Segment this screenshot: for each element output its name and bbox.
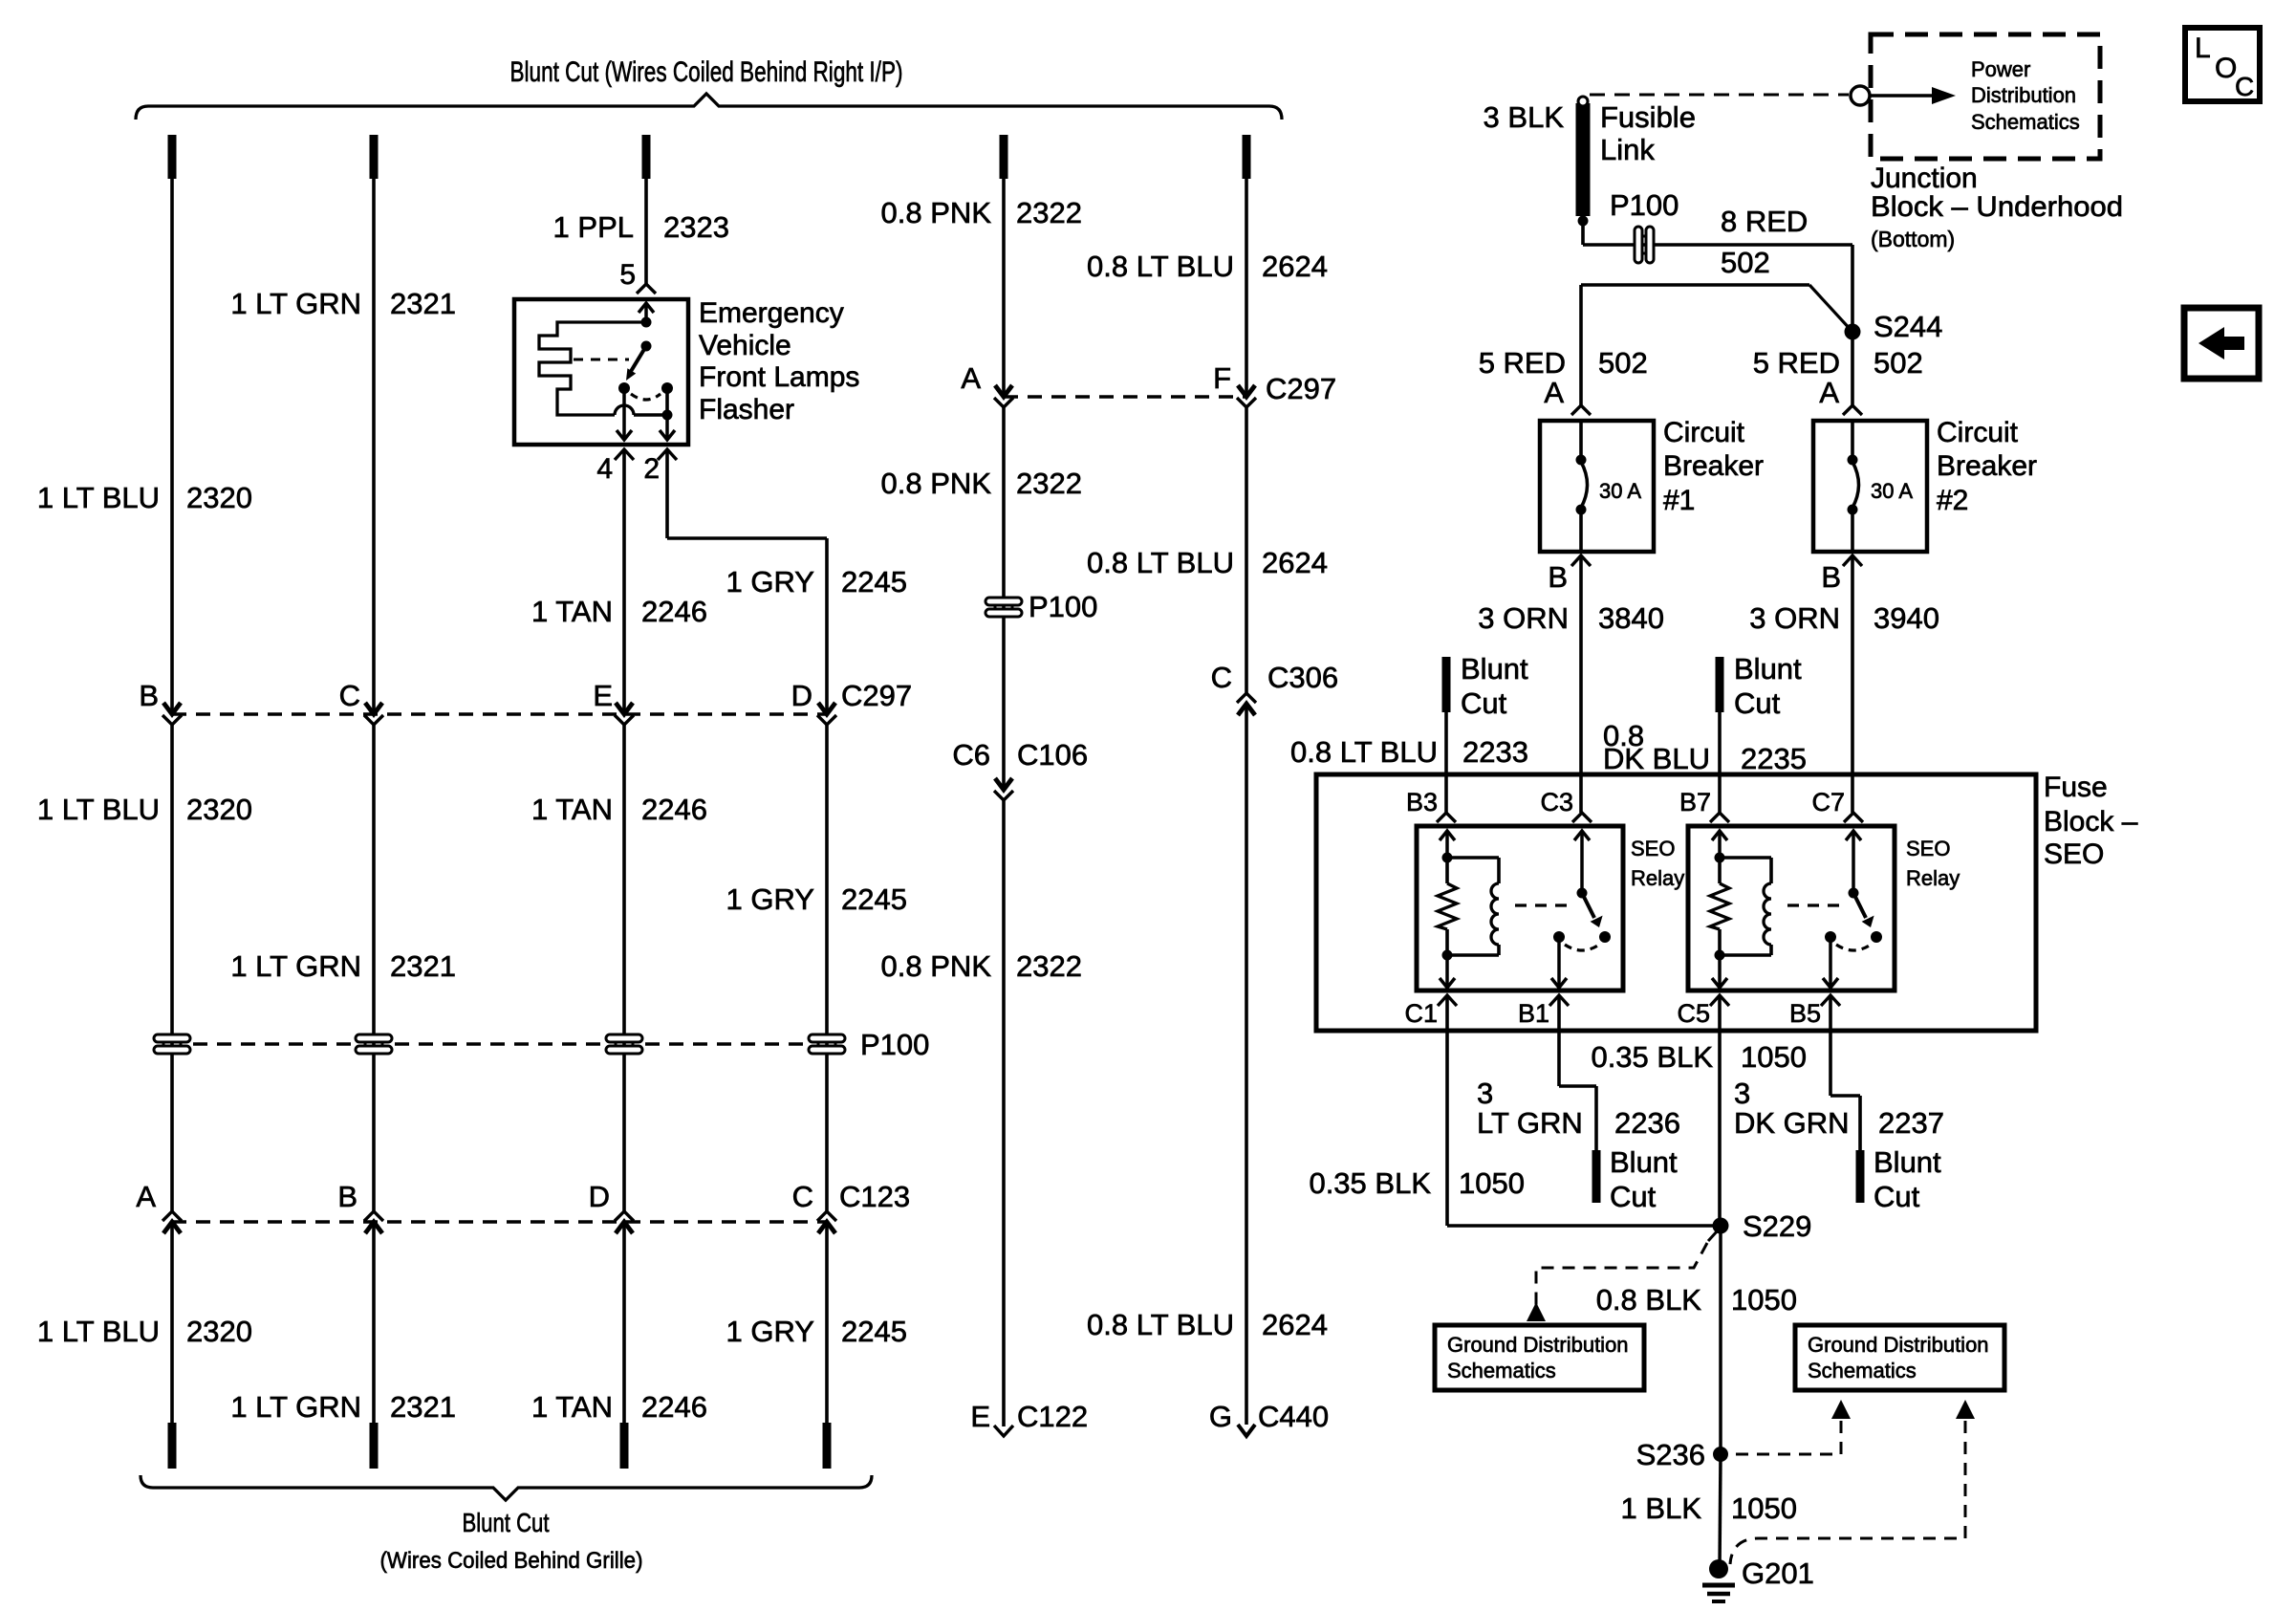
label 1 LT BLU 2320 (middle) — [37, 793, 252, 826]
P100 inline connector on W3 — [606, 1034, 642, 1054]
svg-text:G201: G201 — [1742, 1557, 1814, 1590]
letter B — [337, 1180, 357, 1213]
svg-text:P100: P100 — [1029, 590, 1097, 623]
svg-text:E: E — [593, 679, 613, 712]
letter C — [792, 1180, 813, 1213]
svg-text:Blunt: Blunt — [1874, 1145, 1941, 1179]
connector C440 end arrow — [1238, 1425, 1255, 1436]
label 0.35 BLK 1050 (C5) — [1591, 1040, 1807, 1074]
pin number 5 — [619, 259, 636, 291]
svg-text:1 BLK: 1 BLK — [1621, 1491, 1702, 1525]
svg-text:DK BLU: DK BLU — [1603, 742, 1710, 775]
svg-text:2323: 2323 — [663, 210, 729, 244]
wire W1 middle segment — [170, 725, 174, 1211]
svg-text:2: 2 — [643, 453, 660, 485]
relay 1 resistor — [1438, 858, 1457, 961]
wire 1 PPL 2323 to flasher pin 5 — [644, 179, 648, 284]
blunt cut stub for B3 — [1442, 657, 1451, 712]
splice name S236 — [1636, 1438, 1705, 1471]
svg-text:SEO: SEO — [1906, 837, 1950, 860]
connector row C297 dashed line — [172, 712, 827, 715]
svg-text:30 A: 30 A — [1599, 479, 1641, 503]
wire 0.8 LT BLU 2233 — [1444, 712, 1448, 813]
svg-text:Breaker: Breaker — [1937, 450, 2037, 482]
svg-text:3940: 3940 — [1874, 601, 1939, 635]
blunt cut stub (B5) — [1856, 1150, 1865, 1203]
svg-text:1 GRY: 1 GRY — [726, 1315, 814, 1348]
connector C106 pass-through on W5 — [994, 778, 1013, 800]
wire 3 LT GRN 2236 from B1 with jog — [1559, 995, 1596, 1153]
letter B (breaker 2) — [1821, 560, 1841, 594]
svg-text:F: F — [1213, 361, 1231, 395]
svg-text:DK GRN: DK GRN — [1734, 1106, 1850, 1140]
pin B3 label and chevron — [1406, 788, 1456, 822]
relay 1 pin B1 internal arrow — [1551, 937, 1567, 988]
label 3 DK GRN 2237 — [1734, 1077, 1944, 1140]
svg-text:5: 5 — [619, 259, 636, 291]
label 0.8 BLK 1050 — [1596, 1283, 1797, 1317]
svg-text:#1: #1 — [1663, 485, 1695, 516]
wire W3 bottom blunt end — [620, 1423, 629, 1469]
blunt cut stub (B1) — [1592, 1150, 1601, 1203]
breaker 2 pin B connector chevron — [1843, 555, 1862, 566]
breaker 2 pin A connector chevron — [1843, 405, 1862, 415]
circuit breaker #2 element — [1848, 421, 1859, 552]
svg-text:Front Lamps: Front Lamps — [699, 361, 859, 393]
svg-text:1 TAN: 1 TAN — [531, 595, 613, 628]
connector pin C and name C306 — [1211, 661, 1339, 694]
svg-text:1 LT GRN: 1 LT GRN — [230, 949, 361, 983]
wire W1 bottom blunt end — [168, 1423, 177, 1469]
svg-text:2624: 2624 — [1262, 1308, 1328, 1341]
svg-text:0.8 LT BLU: 0.8 LT BLU — [1087, 546, 1234, 579]
svg-text:A: A — [136, 1180, 156, 1213]
svg-text:Emergency: Emergency — [699, 297, 844, 329]
relay 2 coil branch — [1715, 853, 1772, 956]
svg-text:Blunt: Blunt — [1610, 1145, 1678, 1179]
relay 2 dashed alternate-contact arc — [1836, 945, 1871, 950]
label 1 LT GRN 2321 (upper) — [230, 287, 456, 320]
svg-text:2246: 2246 — [641, 595, 707, 628]
flasher mechanical dashed link — [574, 359, 629, 361]
wire 3 ORN 3840 — [1579, 555, 1583, 813]
svg-text:2321: 2321 — [390, 949, 456, 983]
svg-text:D: D — [791, 679, 812, 712]
svg-text:P100: P100 — [860, 1028, 929, 1061]
wire W5 PNK top blunt end — [1000, 135, 1008, 179]
svg-text:2236: 2236 — [1614, 1106, 1680, 1140]
connector row C297 (middle) dashed line — [1004, 395, 1246, 398]
svg-text:Cut: Cut — [1734, 686, 1781, 720]
breaker 1 pin A connector chevron — [1571, 405, 1591, 415]
P100 inline connector on W2 — [356, 1034, 392, 1054]
blunt cut caption (B3) — [1461, 652, 1528, 720]
annotation SEO Relay (1) — [1631, 837, 1684, 890]
label 0.8 PNK 2322 (first) — [881, 196, 1082, 229]
svg-text:B: B — [337, 1180, 357, 1213]
pin C3 label and chevron — [1540, 788, 1592, 822]
svg-text:1 LT BLU: 1 LT BLU — [37, 1315, 160, 1348]
svg-text:1 GRY: 1 GRY — [726, 882, 814, 916]
svg-text:C123: C123 — [839, 1180, 910, 1213]
dashed reference line to power distribution — [1590, 94, 1849, 97]
label 1 LT BLU 2320 (upper) — [37, 481, 252, 514]
svg-text:B1: B1 — [1518, 999, 1549, 1028]
label 1 GRY 2245 (upper) — [726, 565, 907, 599]
label 1 LT BLU 2320 (lower) — [37, 1315, 252, 1348]
connector name C297 — [841, 679, 912, 712]
svg-text:LT GRN: LT GRN — [1477, 1106, 1583, 1140]
pin C5 label and chevron — [1677, 995, 1729, 1028]
svg-text:C5: C5 — [1677, 999, 1710, 1028]
svg-text:0.35 BLK: 0.35 BLK — [1591, 1040, 1713, 1074]
svg-text:G: G — [1209, 1400, 1232, 1433]
letter D — [589, 1180, 610, 1213]
relay 2 pin B5 internal arrow — [1823, 937, 1838, 988]
svg-text:A: A — [1819, 376, 1839, 409]
svg-text:Flasher: Flasher — [699, 394, 794, 425]
connector name C123 — [839, 1180, 910, 1213]
label 3 ORN 3940 — [1749, 601, 1939, 635]
P100 inline connector on W5 — [986, 598, 1022, 617]
wire W5 segment top — [1002, 179, 1006, 397]
svg-text:Link: Link — [1600, 133, 1655, 166]
relay 2 pin C5 internal arrow — [1712, 955, 1727, 988]
dashed reference from right box toward G201 — [1730, 1400, 1975, 1564]
svg-text:2320: 2320 — [186, 481, 252, 514]
flasher pin 2 connector chevron — [658, 449, 677, 460]
reference terminal circle — [1851, 86, 1870, 105]
pass-through connector row P100 dashed line — [193, 1042, 806, 1045]
pin B1 label and chevron — [1518, 995, 1569, 1028]
svg-text:2322: 2322 — [1016, 949, 1082, 983]
flasher pin 4 internal arrow — [617, 388, 632, 440]
svg-text:Vehicle: Vehicle — [699, 330, 791, 361]
rating label 30 A — [1599, 479, 1641, 503]
flasher switch arm with arrowhead — [626, 346, 646, 381]
svg-text:3: 3 — [1477, 1077, 1493, 1110]
svg-text:(Bottom): (Bottom) — [1871, 227, 1955, 251]
connector name C297 — [1266, 372, 1336, 405]
svg-text:Blunt: Blunt — [1734, 652, 1802, 686]
wire down to S244 — [1851, 245, 1854, 332]
svg-text:A: A — [961, 361, 981, 395]
wire 3 DK GRN 2237 from B5 with jog — [1830, 995, 1860, 1153]
svg-text:2322: 2322 — [1016, 196, 1082, 229]
relay 1 pin C1 internal arrow — [1440, 955, 1455, 988]
wire 1 GRY 2245 from flasher pin 2 with jog — [667, 449, 827, 714]
svg-text:3: 3 — [1734, 1077, 1750, 1110]
svg-text:Blunt Cut: Blunt Cut — [463, 1508, 550, 1537]
svg-text:#2: #2 — [1937, 485, 1968, 516]
wire W6 segment 3 — [1245, 704, 1248, 1425]
label 0.8 DK BLU 2235 — [1603, 719, 1807, 775]
rating label 30 A — [1871, 479, 1913, 503]
wire 8 RED 502 from fusible link — [1583, 216, 1852, 245]
svg-text:Blunt Cut (Wires Coiled Behind: Blunt Cut (Wires Coiled Behind Right I/P… — [510, 56, 903, 88]
annotation SEO Relay (2) — [1906, 837, 1960, 890]
label 3 LT GRN 2236 — [1477, 1077, 1680, 1140]
svg-text:S236: S236 — [1636, 1438, 1705, 1471]
splice name S244 and label 502 — [1874, 310, 1942, 380]
svg-text:Schematics: Schematics — [1971, 110, 2080, 134]
svg-text:3840: 3840 — [1598, 601, 1664, 635]
blunt cut caption (B1) — [1610, 1145, 1678, 1213]
svg-text:1050: 1050 — [1459, 1166, 1525, 1200]
label 0.8 LT BLU 2624 (second) — [1087, 546, 1328, 579]
svg-text:Cut: Cut — [1874, 1180, 1920, 1213]
svg-text:B: B — [1821, 560, 1841, 594]
relay 2 dashed coil-switch link — [1787, 903, 1847, 906]
C123 pin B connector — [364, 1211, 383, 1233]
svg-text:B7: B7 — [1679, 788, 1711, 816]
connector name P100 — [1610, 188, 1679, 222]
svg-text:S244: S244 — [1874, 310, 1942, 343]
relay 1 pin B3 internal arrow — [1440, 831, 1455, 858]
svg-text:2246: 2246 — [641, 793, 707, 826]
svg-text:O: O — [2215, 53, 2237, 84]
svg-text:2246: 2246 — [641, 1390, 707, 1424]
label 3 ORN 3840 — [1478, 601, 1664, 635]
pin C7 label and chevron — [1811, 788, 1863, 822]
letter F — [1213, 361, 1231, 395]
wire W1 bottom segment — [170, 1222, 174, 1423]
letter D — [791, 679, 812, 712]
connector C306 pass-through on W6 — [1237, 693, 1256, 715]
wire 0.8 BLK 1050 S229 to S236 — [1719, 1226, 1722, 1454]
P100 inline connector on W1 — [154, 1034, 190, 1054]
svg-text:Ground Distribution: Ground Distribution — [1808, 1333, 1989, 1357]
svg-text:8 RED: 8 RED — [1721, 205, 1808, 238]
svg-text:2320: 2320 — [186, 793, 252, 826]
svg-text:0.35 BLK: 0.35 BLK — [1309, 1166, 1431, 1200]
letter A — [136, 1180, 156, 1213]
svg-text:1050: 1050 — [1741, 1040, 1807, 1074]
relay 2 contacts — [1825, 931, 1882, 943]
svg-text:S229: S229 — [1743, 1209, 1811, 1243]
svg-text:Distribution: Distribution — [1971, 83, 2076, 107]
svg-text:1 LT BLU: 1 LT BLU — [37, 793, 160, 826]
svg-text:1 TAN: 1 TAN — [531, 1390, 613, 1424]
wire W2 bottom blunt end — [370, 1423, 379, 1469]
C123 pin D connector — [615, 1211, 634, 1233]
connector name P100 — [860, 1028, 929, 1061]
connector name P100 — [1029, 590, 1097, 623]
blunt cut caption (B7) — [1734, 652, 1802, 720]
ground distribution schematics box (left) — [1435, 1325, 1644, 1390]
svg-text:C440: C440 — [1258, 1400, 1329, 1433]
svg-text:1 PPL: 1 PPL — [553, 210, 634, 244]
wire W4 bottom segment — [825, 1222, 829, 1423]
label 1 TAN 2246 (lower) — [531, 1390, 707, 1424]
svg-text:Circuit: Circuit — [1663, 417, 1745, 448]
wire W2 middle segment — [372, 725, 376, 1211]
svg-text:Fuse: Fuse — [2044, 772, 2108, 803]
svg-text:Junction: Junction — [1871, 163, 1978, 194]
svg-text:D: D — [589, 1180, 610, 1213]
svg-text:0.8 LT BLU: 0.8 LT BLU — [1087, 1308, 1234, 1341]
svg-text:3 ORN: 3 ORN — [1478, 601, 1569, 635]
SEO relay 2 box — [1688, 826, 1895, 991]
wire W1 segment top — [170, 179, 174, 714]
svg-text:C7: C7 — [1811, 788, 1845, 816]
svg-text:5 RED: 5 RED — [1479, 346, 1566, 380]
label 1 TAN 2246 (upper) — [531, 595, 707, 628]
pin G and name C440 — [1209, 1400, 1329, 1433]
junction dot under fusible link — [1578, 216, 1589, 227]
C297 pin E connector — [615, 703, 634, 725]
svg-text:3 ORN: 3 ORN — [1749, 601, 1840, 635]
dashed reference from right box to S236 — [1730, 1400, 1851, 1454]
svg-text:C306: C306 — [1267, 661, 1338, 694]
wire W2 LT GRN top blunt end — [370, 135, 379, 179]
solid tick below S229 — [1708, 1230, 1718, 1241]
wire W3 PPL top blunt end — [642, 135, 651, 179]
svg-text:2233: 2233 — [1462, 735, 1528, 769]
svg-text:C6: C6 — [952, 738, 990, 772]
label 3 BLK — [1484, 100, 1565, 134]
splice S229 — [1713, 1218, 1729, 1234]
circuit breaker #1 element — [1576, 421, 1588, 552]
svg-text:1 LT BLU: 1 LT BLU — [37, 481, 160, 514]
splice name S229 — [1743, 1209, 1811, 1243]
relay 1 dashed coil-switch link — [1515, 903, 1575, 906]
svg-text:0.8 PNK: 0.8 PNK — [881, 949, 992, 983]
svg-text:Blunt: Blunt — [1461, 652, 1528, 686]
label 0.8 PNK 2322 (second) — [881, 467, 1082, 500]
fusible link (3 BLK) thick element — [1576, 103, 1591, 216]
connector C122 end chevron — [994, 1426, 1013, 1436]
letter B — [139, 679, 159, 712]
flasher internal junction dots — [641, 317, 652, 352]
flasher pin 4 connector chevron — [615, 449, 634, 460]
letter A — [961, 361, 981, 395]
connector row C123 dashed line — [172, 1220, 827, 1223]
wire 0.35 BLK 1050 from C1 to S229 — [1447, 995, 1721, 1226]
power distribution schematics text — [1971, 57, 2080, 134]
svg-text:0.8 PNK: 0.8 PNK — [881, 467, 992, 500]
svg-text:P100: P100 — [1610, 188, 1679, 222]
svg-text:0.8 PNK: 0.8 PNK — [881, 196, 992, 229]
svg-text:Circuit: Circuit — [1937, 417, 2019, 448]
svg-text:Relay: Relay — [1631, 866, 1684, 890]
svg-text:C122: C122 — [1017, 1400, 1088, 1433]
svg-text:1050: 1050 — [1731, 1491, 1797, 1525]
pin B5 label and chevron — [1789, 995, 1840, 1028]
flasher heater element meander — [539, 322, 667, 415]
wire W2 segment top — [372, 179, 376, 714]
svg-text:(Wires Coiled Behind Grille): (Wires Coiled Behind Grille) — [380, 1548, 643, 1574]
LOC page icon box — [2185, 28, 2260, 101]
label 1 BLK 1050 — [1621, 1491, 1797, 1525]
svg-text:1 LT GRN: 1 LT GRN — [230, 287, 361, 320]
splice S244 — [1845, 324, 1861, 340]
svg-text:0.8 BLK: 0.8 BLK — [1596, 1283, 1702, 1317]
breaker 1 pin B connector chevron — [1571, 555, 1591, 566]
relay 1 coil branch — [1442, 853, 1500, 956]
svg-text:B5: B5 — [1789, 999, 1821, 1028]
relay 1 switch pivot and arm — [1574, 831, 1603, 927]
svg-text:4: 4 — [596, 453, 613, 485]
wire 5 RED 502 to circuit breaker 2 — [1851, 332, 1854, 405]
svg-text:1 GRY: 1 GRY — [726, 565, 814, 599]
ground name G201 — [1742, 1557, 1814, 1590]
wire 1 TAN 2246 from flasher pin 4 — [622, 449, 626, 714]
svg-text:2237: 2237 — [1878, 1106, 1944, 1140]
svg-text:502: 502 — [1721, 246, 1770, 279]
svg-text:Ground Distribution: Ground Distribution — [1447, 1333, 1629, 1357]
label 0.35 BLK 1050 (C1) — [1309, 1166, 1525, 1200]
svg-text:B: B — [1548, 560, 1568, 594]
svg-text:5 RED: 5 RED — [1753, 346, 1840, 380]
pin number 2 — [643, 453, 660, 485]
svg-text:Fusible: Fusible — [1600, 100, 1696, 134]
wire W5 segment 3 — [1002, 800, 1006, 1426]
relay 2 resistor — [1710, 858, 1729, 961]
C297 pin B connector — [162, 703, 182, 725]
svg-text:C: C — [2235, 72, 2254, 101]
svg-text:2321: 2321 — [390, 1390, 456, 1424]
blunt cut stub for B7 — [1716, 657, 1724, 712]
svg-text:2322: 2322 — [1016, 467, 1082, 500]
ground distribution schematics box (right) — [1795, 1325, 2004, 1390]
svg-text:30 A: 30 A — [1871, 479, 1913, 503]
svg-text:Power: Power — [1971, 57, 2030, 81]
label 0.8 PNK 2322 (third) — [881, 949, 1082, 983]
emergency vehicle front lamps flasher: connector chevron pin 5 — [637, 284, 656, 294]
svg-text:2245: 2245 — [841, 882, 907, 916]
circuit breaker #1 box — [1540, 421, 1654, 552]
wire W3 middle segment — [622, 725, 626, 1211]
top brace (blunt cut group, right I/P) — [136, 56, 1282, 120]
wire 0.35 BLK 1050 from C5 to S229 — [1718, 995, 1722, 1226]
svg-text:C106: C106 — [1017, 738, 1088, 772]
label 0.8 LT BLU 2624 (first) — [1087, 250, 1328, 283]
svg-text:2245: 2245 — [841, 1315, 907, 1348]
flasher pin 2 internal line, junction dot and arrow — [660, 388, 675, 440]
wire W6 segment 2 — [1245, 407, 1248, 693]
C297 pin A connector — [994, 385, 1013, 407]
P100 inline connector on W4 — [809, 1034, 845, 1054]
svg-text:L: L — [2195, 33, 2211, 64]
svg-text:Schematics: Schematics — [1808, 1359, 1917, 1382]
relay 2 pin B7 internal arrow — [1712, 831, 1727, 858]
component name Fuse Block - SEO — [2044, 772, 2138, 870]
label 0.8 LT BLU 2624 (third) — [1087, 1308, 1328, 1341]
pin B7 label and chevron — [1679, 788, 1729, 822]
letter E — [593, 679, 613, 712]
svg-text:Block –: Block – — [2044, 806, 2138, 838]
SEO relay 1 box — [1417, 826, 1623, 991]
label 1 GRY 2245 (lower) — [726, 1315, 907, 1348]
wire W5 segment 2 — [1002, 407, 1006, 790]
letter C — [339, 679, 360, 712]
label 1 TAN 2246 (middle) — [531, 793, 707, 826]
svg-text:B: B — [139, 679, 159, 712]
branch wire from S244 to circuit breaker 1 — [1581, 285, 1852, 405]
svg-text:2321: 2321 — [390, 287, 456, 320]
label 1 PPL 2323 — [553, 210, 729, 244]
splice S236 — [1713, 1447, 1728, 1462]
flasher contact dots pins 4 and 2 — [618, 382, 673, 394]
svg-text:1 LT GRN: 1 LT GRN — [230, 1390, 361, 1424]
ground G201 symbol — [1702, 1559, 1735, 1601]
svg-text:SEO: SEO — [2044, 838, 2104, 870]
fusible link top terminal circle — [1578, 97, 1588, 106]
wire 3 ORN 3940 — [1851, 555, 1854, 813]
letter B (breaker 1) — [1548, 560, 1568, 594]
label 1 GRY 2245 (middle) — [726, 882, 907, 916]
